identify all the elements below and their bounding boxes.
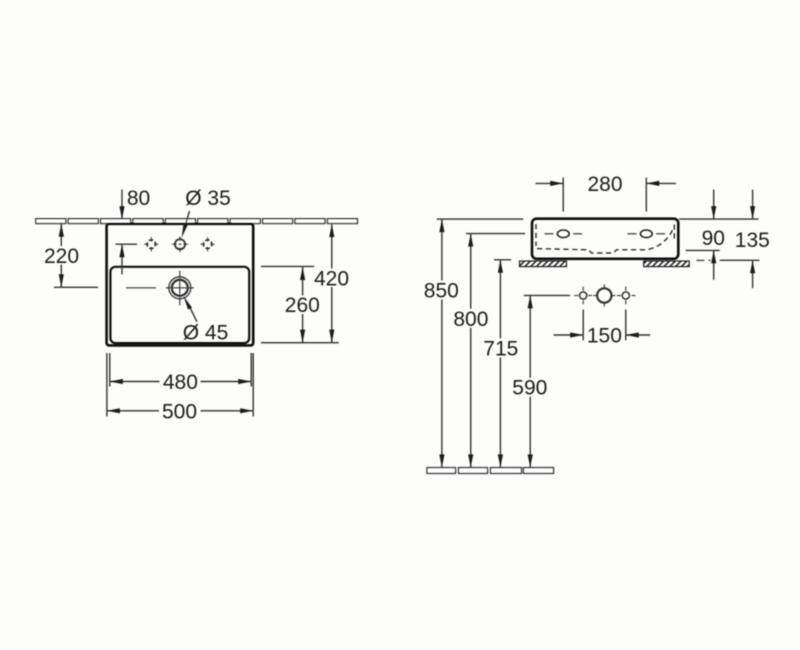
fixing hole centerline dashes (side view) — [545, 233, 666, 235]
inner bowl hidden contour (side view, dashed) — [536, 224, 674, 253]
svg-text:135: 135 — [735, 229, 770, 252]
svg-text:Ø 35: Ø 35 — [185, 187, 231, 210]
dimension 90 (basin top to bowl bottom) — [686, 190, 720, 280]
fixing hole right (side view ellipse) — [640, 230, 652, 238]
tap hole centerline dash (front view) — [116, 243, 138, 245]
drain crosshair centerlines (front view) — [126, 271, 194, 306]
dimension 480 (drill hole span) — [110, 353, 251, 387]
shelf top dash-dot line — [697, 259, 711, 261]
fixing hole left (side view ellipse) — [557, 230, 569, 238]
svg-text:150: 150 — [587, 325, 622, 348]
wall line (tiled wall, front view) — [36, 219, 358, 224]
drain small hole left (side view) — [574, 287, 592, 305]
basin body outline (side view) — [532, 219, 678, 259]
drain hole group reference line (side view) — [524, 294, 570, 296]
dimension 150 (drain hole spacing) — [554, 310, 651, 341]
svg-text:Ø 45: Ø 45 — [183, 321, 229, 344]
tap hole middle (solid circle with crosshair) — [172, 236, 188, 252]
tap hole right (dashed circle with crosshair) — [201, 237, 215, 251]
mounting pad left (hatched) — [520, 261, 567, 267]
drain small hole right (side view) — [617, 287, 636, 305]
svg-text:260: 260 — [285, 294, 320, 317]
svg-text:80: 80 — [127, 187, 150, 210]
dimension 260 (inner bowl top to basin bottom) — [261, 266, 339, 342]
svg-text:500: 500 — [162, 401, 197, 424]
tap hole left (dashed circle with crosshair) — [144, 237, 158, 251]
svg-text:280: 280 — [587, 173, 622, 196]
basin outer outline (front view) — [107, 224, 254, 346]
dimension 850 (basin top height from floor) — [437, 219, 524, 467]
svg-text:850: 850 — [424, 279, 459, 302]
dimension 800 (fixing holes height from floor) — [466, 234, 525, 468]
svg-text:480: 480 — [163, 371, 198, 394]
dimension 220 (wall to drain center) — [54, 224, 98, 287]
basin top extension line (right) — [679, 218, 759, 220]
svg-text:90: 90 — [702, 227, 725, 250]
drain hole (front view, double circle) — [169, 277, 191, 299]
drain main hole (side view) — [593, 284, 615, 306]
svg-text:420: 420 — [314, 267, 349, 290]
dimension 420 (wall to basin bottom) — [331, 224, 333, 342]
dimension 500 (overall width) — [107, 353, 253, 417]
dimension 715 (shelf height from floor) — [494, 260, 511, 467]
svg-text:715: 715 — [483, 338, 518, 361]
svg-text:590: 590 — [512, 377, 547, 400]
mounting pad right (hatched) — [644, 261, 690, 267]
basin inner bowl outline (front view) — [110, 267, 249, 343]
dimension 590 (drain height from floor) — [529, 296, 531, 468]
floor line (tiled floor, side view) — [427, 468, 554, 474]
svg-text:800: 800 — [453, 308, 488, 331]
dimension 135 (overall basin height) — [720, 190, 760, 289]
svg-text:220: 220 — [44, 245, 79, 268]
dimension 280 (fixing hole spacing) — [536, 178, 677, 212]
dimension 80 (tap hole offset from wall) — [121, 190, 123, 275]
